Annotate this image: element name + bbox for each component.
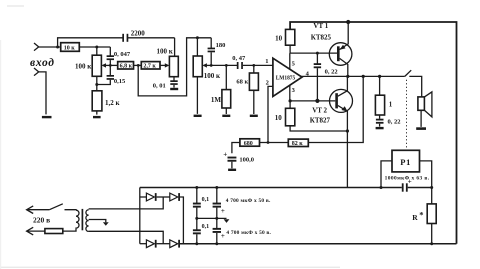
svg-text:VT 1: VT 1 xyxy=(313,22,328,30)
pin 4 output wire and label xyxy=(301,70,348,77)
svg-text:100 к: 100 к xyxy=(204,72,221,80)
ground (speaker) xyxy=(416,127,426,130)
chassis ground (center tap) xyxy=(103,222,109,226)
capacitor 2200 feedback line xyxy=(58,34,175,47)
label вход xyxy=(30,57,55,69)
transistor VT1 KT825 xyxy=(329,22,352,76)
label R* xyxy=(412,209,423,222)
resistor R9 68k xyxy=(249,65,258,114)
minus supply rail xyxy=(140,187,432,189)
svg-text:100 к: 100 к xyxy=(157,48,174,56)
label 0,15 xyxy=(114,78,126,85)
capacitor C4 0,01 xyxy=(170,77,177,88)
node: pin2 feedback junction xyxy=(267,141,270,144)
wire: mains top to switch xyxy=(27,209,50,211)
node: R4/R5 junction xyxy=(137,64,140,67)
label КТ827 xyxy=(310,117,331,125)
node: output to R13 riser xyxy=(362,75,365,78)
node: C12 on plus rail xyxy=(195,242,198,245)
svg-text:1: 1 xyxy=(265,58,268,65)
diode VD4 xyxy=(170,240,180,248)
label 1 (Zobel R) xyxy=(389,101,393,109)
node: junction input/feedback xyxy=(56,46,59,49)
svg-text:100,0: 100,0 xyxy=(239,157,254,164)
svg-text:0, 22: 0, 22 xyxy=(325,68,338,75)
svg-text:2200: 2200 xyxy=(131,30,146,38)
ground (R9) xyxy=(250,115,258,117)
node: C7 bottom on VT2 base wire xyxy=(315,99,319,103)
node: R8 1M top xyxy=(225,64,228,67)
label 180 xyxy=(216,42,226,49)
input jack XS2 (bottom) xyxy=(34,68,39,76)
diode VD2 xyxy=(170,193,184,244)
node: pin3/R11/VT2 base xyxy=(289,99,292,102)
label 0,1 bottom xyxy=(202,224,210,230)
plus mark (C14) xyxy=(221,232,225,240)
mains input terminal bottom xyxy=(27,227,34,235)
ground (R3) xyxy=(93,116,101,118)
op-amp U1 LM1875 xyxy=(273,58,302,96)
diode VD3 xyxy=(140,240,170,248)
svg-text:VT 2: VT 2 xyxy=(312,107,327,115)
pin 5 wire and label xyxy=(290,53,296,69)
resistor R14 1 (Zobel) xyxy=(375,76,384,118)
dashed relay linkage xyxy=(406,80,408,150)
transformer T1 core xyxy=(81,209,83,230)
speaker BA1 xyxy=(418,92,432,127)
label 0, 22 xyxy=(325,68,338,75)
svg-text:0, 47: 0, 47 xyxy=(232,55,246,62)
node: VT2 emitter rail xyxy=(346,129,349,132)
resistor R11 10 (VT2 base) xyxy=(286,101,348,131)
capacitor C7 0,22 (between driver nodes) xyxy=(314,53,321,101)
capacitor C6 0,47 xyxy=(237,62,273,69)
potentiometer R7 100k (treble) xyxy=(193,38,211,114)
label 100 к (treble pot) xyxy=(204,72,221,80)
wire: R1 to C1/pot xyxy=(79,46,110,48)
node: C11 on minus rail xyxy=(195,186,198,189)
wire: secondary center tap xyxy=(89,220,106,223)
0V mid line with chassis ground xyxy=(195,217,229,223)
wire: feedback loop (R4/R5 junction down, right, up) xyxy=(138,38,211,96)
label 0,047 xyxy=(114,51,131,58)
svg-text:10: 10 xyxy=(275,35,283,43)
svg-text:2,7 к: 2,7 к xyxy=(143,64,156,70)
wire: P1 right to R* xyxy=(420,161,432,204)
wire: treble wiper to C6 xyxy=(211,64,237,66)
svg-text:10: 10 xyxy=(275,114,283,122)
svg-text:10 к: 10 к xyxy=(64,46,76,52)
node: R9 68k top xyxy=(252,64,255,67)
wire: 680/82k feedback node xyxy=(260,76,364,142)
node: C13 on minus rail xyxy=(215,186,218,189)
resistor R8 1M xyxy=(222,65,231,114)
capacitor C8 100,0 electrolytic xyxy=(228,157,237,169)
transformer T1 primary xyxy=(76,210,79,229)
wire: XS1 to R1 10k xyxy=(39,46,61,48)
input jack XS1 (top) xyxy=(34,43,39,51)
svg-text:180: 180 xyxy=(216,42,226,49)
svg-text:0,1: 0,1 xyxy=(202,197,210,203)
node: P1 left on minus rail xyxy=(380,186,383,189)
svg-text:6,8 к: 6,8 к xyxy=(120,64,133,70)
svg-text:R: R xyxy=(412,213,418,222)
node: Zobel tap on output xyxy=(378,75,381,78)
capacitor C3 0,15 xyxy=(97,65,114,84)
wire: R5 to bass pot wiper (arrow) xyxy=(160,63,169,67)
label 100 к (bass pot) xyxy=(157,48,174,56)
faint scan artifacts xyxy=(0,5,340,269)
svg-text:0,15: 0,15 xyxy=(114,78,126,85)
wire: 680 to C8 xyxy=(232,143,240,154)
svg-text:+: + xyxy=(408,177,412,185)
ground (C8) xyxy=(228,169,236,171)
label 0,1 top xyxy=(202,197,210,203)
mains input terminal top xyxy=(27,206,34,214)
label 2200 xyxy=(131,30,146,38)
resistor R13 82k (boxed) xyxy=(288,139,308,147)
bridge minus vertical xyxy=(139,188,141,244)
svg-text:0, 22: 0, 22 xyxy=(388,119,401,126)
pin 3 wire and label xyxy=(290,85,296,101)
svg-text:1: 1 xyxy=(389,101,393,109)
svg-text:220 в: 220 в xyxy=(33,216,50,225)
wire: XS2 shield down xyxy=(39,72,46,115)
svg-text:82 к: 82 к xyxy=(292,141,304,147)
transistor VT2 KT827 xyxy=(330,76,353,131)
pin 1 label xyxy=(265,58,268,65)
node: C10/P1 right/R* xyxy=(430,186,433,189)
resistor R10 10 (VT1 base) xyxy=(286,29,295,53)
svg-text:вход: вход xyxy=(30,57,55,69)
svg-text:+: + xyxy=(221,207,225,215)
label 1000мкФ x 63 в. xyxy=(385,176,430,182)
resistor R1 10k (boxed) xyxy=(61,43,80,52)
ground (R8) xyxy=(222,115,230,117)
top supply rail xyxy=(290,22,456,244)
label 4 700 мкФ х 50 в. (top) xyxy=(226,198,271,204)
svg-text:1,2 к: 1,2 к xyxy=(105,99,121,107)
svg-text:P1: P1 xyxy=(400,157,411,167)
wire: VT2 base xyxy=(290,100,335,102)
label 10 (VT1) xyxy=(275,35,283,43)
plus mark (C8) xyxy=(223,151,227,159)
ground (R7) xyxy=(194,115,202,117)
capacitor C2 0,047 xyxy=(107,47,114,65)
svg-text:КТ825: КТ825 xyxy=(311,33,332,41)
capacitor C9 0,22 (Zobel) xyxy=(376,119,384,127)
svg-text:68 к: 68 к xyxy=(236,78,248,85)
label 0, 01 xyxy=(153,83,166,90)
wire: VT2 emitter to minus rail xyxy=(346,131,348,188)
ground (C4) xyxy=(170,88,178,90)
label 1,2 к xyxy=(105,99,121,107)
node: VT1 emitter on rail xyxy=(346,20,350,24)
filter column C11/C12 0,1 xyxy=(193,188,201,244)
node: C5 to wiper wire xyxy=(210,64,213,67)
label VT 1 xyxy=(313,22,328,30)
svg-text:+: + xyxy=(223,151,227,159)
label 0, 47 xyxy=(232,55,246,62)
relay P1 xyxy=(392,150,420,172)
wire: R4 to R5 xyxy=(134,64,142,66)
wire: P1 left to minus rail xyxy=(381,161,392,188)
wire: VT1 base xyxy=(290,52,337,54)
node: R* on plus rail xyxy=(430,242,433,245)
label 4 700 мкФ х 50 в. (bottom) xyxy=(226,230,271,236)
ground (Zobel) xyxy=(376,127,384,129)
label КТ825 xyxy=(311,33,332,41)
filter column C13/C14 4700mkF xyxy=(213,188,221,244)
switch SA (relay contact) xyxy=(348,70,422,97)
switch SB (mains) xyxy=(49,204,76,211)
node: pot top xyxy=(95,46,98,49)
wire: wiper node to R4 xyxy=(110,64,117,66)
label 100 к (volume pot) xyxy=(75,63,92,71)
svg-text:0,1: 0,1 xyxy=(202,224,210,230)
node: C7 top on VT1 base wire xyxy=(316,52,319,55)
label 220 в xyxy=(33,216,50,225)
svg-text:LM1875: LM1875 xyxy=(276,76,296,82)
fuse FU1 xyxy=(27,229,76,234)
pin 2 wire and label xyxy=(266,79,274,142)
ground (input shield) xyxy=(42,116,52,118)
svg-text:680: 680 xyxy=(244,141,253,147)
resistor R12 680 (boxed) xyxy=(240,139,260,147)
resistor R5 2,7k (boxed) xyxy=(141,62,160,70)
label 100,0 xyxy=(239,157,254,164)
svg-text:2: 2 xyxy=(266,79,269,86)
svg-text:100 к: 100 к xyxy=(75,63,92,71)
node: pot bottom / C3 xyxy=(95,83,98,86)
label VT 2 xyxy=(312,107,327,115)
node: output/collectors xyxy=(346,75,349,78)
wire: secondary top to bridge xyxy=(89,197,164,209)
label 68 к xyxy=(236,78,248,85)
potentiometer R2 100k (volume) xyxy=(92,47,110,91)
label 0, 22 (Zobel) xyxy=(388,119,401,126)
node: C14 on plus rail xyxy=(215,242,218,245)
potentiometer R6 100k (bass, fed by R5) xyxy=(169,38,178,77)
diode VD1 xyxy=(140,193,170,201)
node: volume wiper / C2 C3 xyxy=(109,64,112,67)
svg-text:4 700 мкФ х 50 в.: 4 700 мкФ х 50 в. xyxy=(226,198,271,204)
capacitor C10 1000mkF (in minus rail) xyxy=(402,183,408,191)
label 1M xyxy=(211,96,222,104)
svg-text:КТ827: КТ827 xyxy=(310,117,331,125)
svg-text:*: * xyxy=(419,209,423,219)
label 10 (VT2) xyxy=(275,114,283,122)
transformer T1 secondary xyxy=(86,210,89,232)
plus mark (C10) xyxy=(408,177,412,185)
wire: secondary bottom to bridge xyxy=(89,231,164,243)
svg-text:+: + xyxy=(221,232,225,240)
resistor R* xyxy=(427,204,436,244)
capacitor C5 180 xyxy=(208,38,215,66)
plus supply rail (bottom) xyxy=(180,243,457,245)
svg-text:1M: 1M xyxy=(211,96,222,104)
svg-text:0, 01: 0, 01 xyxy=(153,83,166,90)
svg-text:0, 047: 0, 047 xyxy=(114,51,131,58)
resistor R3 1,2k xyxy=(92,91,102,115)
resistor R4 6,8k (boxed) xyxy=(118,62,134,70)
plus mark (C13) xyxy=(221,207,225,215)
svg-text:4 700 мкФ х 50 в.: 4 700 мкФ х 50 в. xyxy=(226,230,271,236)
